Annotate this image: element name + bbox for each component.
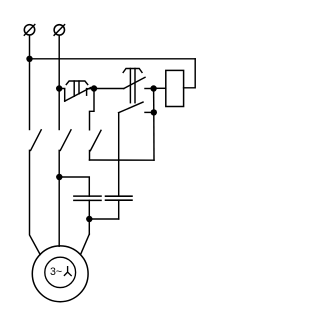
svg-text:3~: 3~ bbox=[50, 266, 62, 278]
